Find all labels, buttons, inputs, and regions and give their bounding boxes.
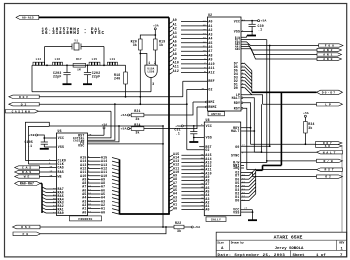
capacitor C31 [193,126,195,132]
CLK wire routed up [28,126,49,164]
flag OSC [13,225,41,229]
flag AN2 [317,48,342,51]
flag AN0 [317,57,342,60]
OSC wire [40,226,174,228]
svg-text:3k: 3k [135,130,139,134]
svg-text:15: 15 [203,28,207,31]
SALLY name label box [206,217,226,222]
IC U6 FREDDIE box [57,133,88,216]
svg-text:1: 1 [148,61,150,65]
svg-text:AN2: AN2 [323,49,334,52]
ANTIC address net labels A0-A12 [173,18,179,73]
svg-text:O2: O2 [208,87,212,91]
resistor R24 pullup [128,128,130,130]
O2 vertical wire [186,89,188,149]
svg-text:OSC: OSC [78,144,84,148]
flag AN1 [317,53,342,56]
svg-text:A0: A0 [82,210,86,214]
svg-text:A0: A0 [173,206,177,210]
svg-text:11: 11 [203,45,207,48]
svg-text:R21: R21 [134,109,140,113]
svg-text:ATARI 65XE: ATARI 65XE [274,235,303,241]
junction dot VCC/C30 [251,20,253,22]
address bus horizontal wire top [39,16,169,18]
svg-text:HALT: HALT [232,96,241,100]
RST wire to flag [247,169,317,171]
svg-text:+5A: +5A [194,225,200,229]
svg-text:REV: REV [339,242,344,245]
svg-text:CAS: CAS [22,167,33,170]
AND gate U10A LS08 [145,65,157,77]
FREDDIE address pin names inside [80,156,86,215]
svg-text:17: 17 [203,19,207,22]
svg-text:CAS: CAS [58,166,64,170]
resistor R19 [154,35,156,39]
svg-text:1 of: 1 of [316,253,326,258]
svg-text:+5A: +5A [260,19,266,23]
flag O2 right [317,175,343,178]
title block row line 1 [216,239,347,241]
svg-text:SALLY: SALLY [211,219,221,222]
L14 left feedback wire [31,65,33,92]
SALLY address net labels [173,152,179,210]
svg-text:RST: RST [234,106,240,110]
svg-text:VSS: VSS [233,210,239,214]
flag REF [9,95,39,98]
svg-text:WE: WE [58,175,62,179]
CASINH wire [39,110,111,112]
svg-text:O2: O2 [205,148,209,152]
svg-text:RNMI: RNMI [208,105,217,109]
title block divider date/sheet [290,250,292,256]
svg-text:28: 28 [244,207,248,210]
component row baseline wire [32,64,126,66]
svg-text:Sheet: Sheet [293,253,306,258]
resistor R18 [125,65,127,72]
svg-text:AN1: AN1 [323,54,334,57]
bus flag D0-D7 [317,90,343,94]
svg-text:3k: 3k [177,229,181,233]
flag RAS [15,170,40,173]
power +5B and C105 cluster [36,134,38,136]
svg-text:R/W: R/W [323,159,334,163]
svg-text:O2: O2 [325,176,332,179]
data bus jog horizontal [263,164,282,166]
svg-text:+5A: +5A [153,25,159,28]
flag O2 left [9,103,39,106]
svg-text:AN0: AN0 [235,48,241,51]
oscillator feedback wire [32,91,151,93]
flag LP [317,102,343,106]
svg-text:RAS: RAS [22,171,33,174]
svg-text:+5A: +5A [303,112,309,115]
svg-text:3k: 3k [308,126,312,130]
ground below C31 [189,141,198,143]
svg-text:REF: REF [19,96,30,99]
svg-text:240: 240 [114,76,120,80]
flag WE [15,175,40,178]
svg-text:A0: A0 [101,210,105,214]
ground below C30 [251,31,253,35]
flag R/W [317,159,343,162]
ANTIC data pin numbers [242,61,245,88]
svg-text:VSS: VSS [58,145,64,149]
svg-text:U6: U6 [58,129,62,133]
svg-text:.1: .1 [176,132,180,136]
svg-text:A12: A12 [208,70,214,74]
svg-text:NMI: NMI [208,100,214,104]
svg-text:10: 10 [203,49,207,52]
SYNC vertical wire [261,104,263,152]
FREDDIE name label box [70,216,102,221]
svg-text:F00: F00 [325,45,336,48]
svg-text:A0-A15: A0-A15 [22,17,34,20]
flag F0 [13,232,41,236]
svg-text:12: 12 [203,40,207,43]
RDY wire [251,143,317,145]
svg-text:+5A: +5A [120,113,126,117]
svg-text:+5B: +5B [28,133,34,137]
data bus vertical wire right [280,92,282,165]
svg-text:+5A: +5A [102,124,108,127]
svg-text:VCC: VCC [206,124,212,128]
freddie address bus vertical wire [119,160,121,215]
bus flag RA0-RA7 [15,181,41,185]
F00 to O0 vertical wire [269,46,271,147]
svg-text:O0: O0 [235,145,239,149]
resistor R21 pullup [128,114,130,116]
junction dot R20/R19 top [154,34,156,36]
O2 wire to flag [253,176,317,178]
CLKO wire routed up and right [25,122,163,160]
flag CASINH [6,110,39,113]
O2 wire [39,103,187,105]
R/W wire to flag [267,160,317,162]
junction dot RDY/R34 [305,143,307,145]
svg-text:Jerzy SOBOLA: Jerzy SOBOLA [275,246,304,251]
R20 junction down to REF line [139,54,141,105]
flag RDY [316,142,343,145]
R20 junction to gate pin 1 [140,54,147,66]
svg-text:LP: LP [325,102,333,106]
capacitor C203 [66,65,68,72]
svg-text:F0: F0 [22,232,30,236]
svg-text:D0-D7: D0-D7 [322,90,336,94]
svg-text:ANTIC: ANTIC [211,113,221,116]
flag CAS [15,166,40,169]
svg-text:CASINH: CASINH [12,110,32,113]
svg-text:HALT: HALT [231,129,240,133]
svg-text:WE: WE [24,176,31,179]
svg-text:SYNC: SYNC [231,153,240,157]
svg-text:3k: 3k [133,43,137,47]
svg-text:LS08: LS08 [148,70,155,73]
R22 to +5A [184,226,191,228]
FREDDIE address output wires with bus hooks [88,158,120,215]
svg-text:L14: L14 [36,58,42,61]
FREDDIE RA pin wires with bus hooks [42,187,57,213]
svg-text:+5A: +5A [120,127,126,131]
ANTIC data pin names [234,62,238,90]
svg-text:13: 13 [203,36,207,39]
svg-text:22pF: 22pF [92,75,101,79]
R21 wire to NMI [144,102,193,115]
data bus horizontal wire [252,91,317,93]
bus flag A0-A15 [16,15,39,19]
ANTIC address pin numbers [203,19,207,73]
svg-text:D0: D0 [234,86,238,90]
svg-text:21: 21 [53,211,56,214]
ANTIC address pin names inside box [208,20,214,75]
flag HALT [317,151,343,154]
LP wire [263,103,317,105]
svg-text:3: 3 [152,82,154,86]
svg-text:VSS: VSS [206,136,212,140]
svg-text:16.31818MHz - NTSC: 16.31818MHz - NTSC [42,31,106,36]
svg-text:RAS: RAS [58,170,64,174]
junction dot VSS [251,31,253,33]
FREDDIE RA pin numbers [53,187,56,214]
svg-text:Size: Size [217,240,224,244]
svg-text:R17: R17 [76,58,82,61]
svg-text:RA0: RA0 [58,211,64,215]
svg-text:1k: 1k [159,43,163,47]
svg-text:22pF: 22pF [53,75,62,79]
svg-text:.1: .1 [258,28,262,32]
capacitor C202 [87,65,89,72]
address bus bottom horizontal wire [120,213,170,215]
svg-text:2: 2 [154,61,156,65]
SALLY address pin wires A15-A0 with bus hooks [169,155,204,211]
flag F00 [319,44,343,47]
SALLY data pin wires D7-D0 with bus hooks [241,169,256,201]
junction dots on baseline [46,64,48,66]
title block divider REV [336,240,338,250]
R19 bottom to gate pin 2 [154,50,156,65]
svg-text:RST: RST [324,169,335,172]
ANTIC left address pin wires A0-A12 [169,22,208,75]
svg-text:A0: A0 [205,208,209,212]
svg-text:L13: L13 [110,58,116,61]
svg-text:SO: SO [325,145,332,148]
REF wire [39,96,183,98]
svg-text:AN0: AN0 [323,58,334,61]
svg-text:VCC: VCC [234,20,240,24]
svg-text:RA0-RA7: RA0-RA7 [20,182,34,186]
resistor R20 [140,35,155,39]
SALLY ground symbol [248,219,257,221]
svg-text:OSC: OSC [21,225,32,229]
svg-text:L16: L16 [55,58,61,61]
address bus vertical wire [168,17,170,214]
op IC U2 ANTIC box [208,17,242,111]
svg-text:Drawn by: Drawn by [231,240,244,244]
SALLY address pin names [205,153,211,211]
title block row line 2 [216,249,347,251]
svg-text:1M: 1M [77,68,81,71]
resistor R22 [174,225,184,229]
svg-text:VSS: VSS [234,29,240,33]
svg-text:Y1: Y1 [74,39,78,42]
R18 bottom wire to REF line [125,84,127,97]
R24 wire to RNMI [144,107,197,129]
capacitor C30 [251,21,253,25]
ground below C202 [83,83,92,85]
flag RST [317,168,343,171]
svg-text:R22: R22 [175,221,181,225]
ground below C203 [63,83,72,85]
title block outline [216,232,347,257]
svg-text:Date: September 25, 2003: Date: September 25, 2003 [218,253,286,258]
ANTIC name label box [208,112,225,116]
HALT wire [254,151,316,153]
title block divider size/drawnby [229,240,231,250]
svg-text:D0: D0 [235,199,239,203]
svg-text:U8: U8 [206,118,210,122]
gate output pin 3 wire [150,78,152,92]
crystal right vertical wire [103,47,105,66]
REF vertical to ANTIC [182,81,184,97]
svg-text:14: 14 [203,32,207,35]
FREDDIE address net labels [101,156,107,215]
crystal left vertical wire [44,47,46,66]
svg-text:IRQ: IRQ [233,166,239,170]
RA bus wire [40,182,42,184]
ANTIC data pin wires D7-D0 with bus hooks [241,64,252,95]
R/W vertical wire [266,40,268,161]
svg-text:HALT: HALT [323,151,337,154]
FREDDIE address output pin numbers [88,155,91,213]
FREDDIE RA pin names [58,187,64,215]
data bus jog horizontal 2 [256,169,263,171]
svg-text:3k: 3k [135,117,139,121]
IC U8 SALLY box [204,122,240,216]
flag SO [316,144,343,147]
power +5 top right [258,20,260,22]
svg-text:VCC: VCC [58,136,64,140]
svg-text:16: 16 [203,24,207,27]
svg-text:L15: L15 [92,58,98,61]
svg-text:O2: O2 [21,103,28,106]
svg-text:RDY: RDY [234,101,240,105]
svg-text:A12: A12 [173,69,179,73]
R20 bottom junction [139,50,141,54]
svg-text:R24: R24 [134,123,140,127]
SALLY address pin numbers [201,153,204,210]
F0 wire [41,227,167,234]
right inner border line [341,146,343,232]
OSC net vertical wire [162,126,164,227]
SALLY data pin names [235,174,239,203]
svg-text:U2: U2 [208,13,212,17]
svg-text:REF: REF [208,79,214,83]
svg-text:FREDDIE: FREDDIE [78,218,92,221]
SALLY data pin numbers [242,173,245,201]
data bus jog vertical [262,165,264,170]
